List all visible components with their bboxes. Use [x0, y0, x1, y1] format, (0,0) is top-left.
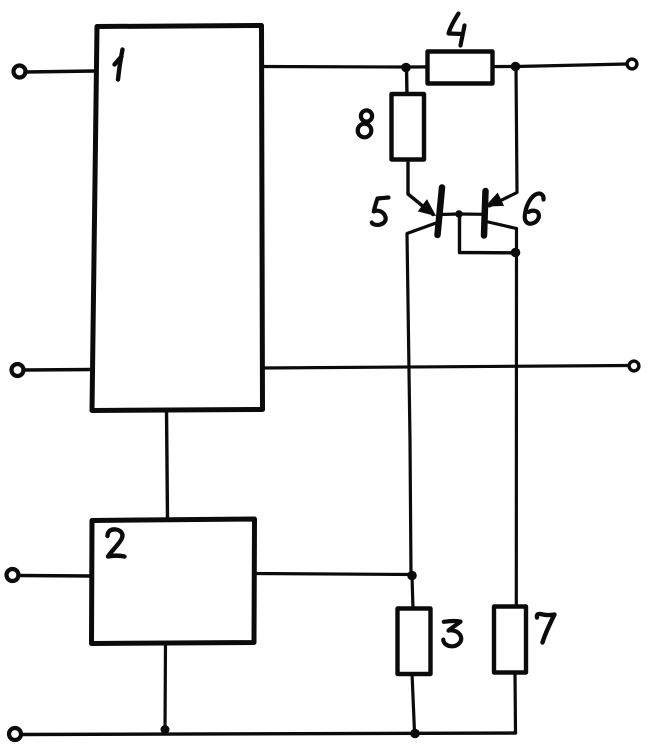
wire transistor 6 collector to right rail [486, 222, 517, 229]
wire node D to base of transistor 6 [459, 212, 483, 216]
terminal mid-right [629, 361, 639, 371]
wire block 1 bottom to block 2 top [167, 409, 168, 519]
wire node C down to resistor 3 [412, 576, 413, 609]
wire block 1 output to node A [260, 65, 406, 69]
wire node D down and right to node E [460, 216, 515, 253]
junction resistor 3 to bottom rail [410, 729, 420, 739]
label 1 [115, 50, 123, 80]
transistor 5 emitter arrow [420, 201, 434, 214]
transistor 6 base bar [484, 191, 486, 236]
block 2 [92, 519, 255, 644]
wire mid-left terminal to block 1 [24, 368, 93, 372]
wire base of transistor 5 to node D [440, 212, 459, 216]
wire transistor 5 collector down rail [407, 223, 436, 575]
wire input top-left to block 1 [25, 71, 95, 72]
wire node B to top-right terminal [516, 64, 627, 67]
wire right rail node E down to resistor 7 [515, 229, 518, 607]
label 3 [443, 621, 461, 646]
label 8 [361, 110, 372, 121]
transistor 6 emitter arrow [488, 195, 502, 206]
wire bottom rail [22, 733, 516, 735]
label 7 [537, 614, 555, 643]
junction block 2 to bottom rail [161, 725, 170, 734]
wire resistor 3 to bottom rail [412, 673, 415, 732]
junction node B [511, 62, 521, 72]
label 4 [449, 14, 465, 46]
wire node B down to transistor 6 emitter [490, 67, 518, 206]
wire resistor 8 to transistor 5 emitter [408, 158, 433, 215]
wire block 1 right edge to mid-right terminal [260, 366, 628, 369]
terminal bottom-left [9, 728, 21, 740]
resistor 7 [494, 607, 526, 673]
wire block 2 bottom to bottom rail [163, 642, 167, 730]
terminal lower-left [7, 569, 19, 581]
resistor 8 [392, 94, 425, 160]
terminal mid-left [12, 364, 24, 376]
terminal top-left [14, 66, 26, 78]
resistor 3 [398, 609, 431, 675]
block 1 [92, 26, 263, 411]
terminal top-right [627, 59, 637, 69]
wire node A down to resistor 8 [405, 67, 409, 96]
junction node C [407, 571, 417, 581]
transistor 5 base bar [438, 188, 443, 236]
wire block 2 output to node C [253, 574, 411, 575]
resistor 4 [428, 52, 493, 84]
wire bottom rail up to resistor 7 [513, 672, 517, 733]
wire lower-left terminal to block 2 [18, 574, 92, 578]
label 6 [525, 194, 544, 224]
label 5 [372, 198, 389, 225]
wire node A to node B through resistor 4 [406, 65, 516, 69]
junction node E [511, 248, 521, 258]
label 2 [108, 529, 125, 556]
junction node D (bases) [455, 210, 463, 218]
junction node A [401, 63, 411, 73]
